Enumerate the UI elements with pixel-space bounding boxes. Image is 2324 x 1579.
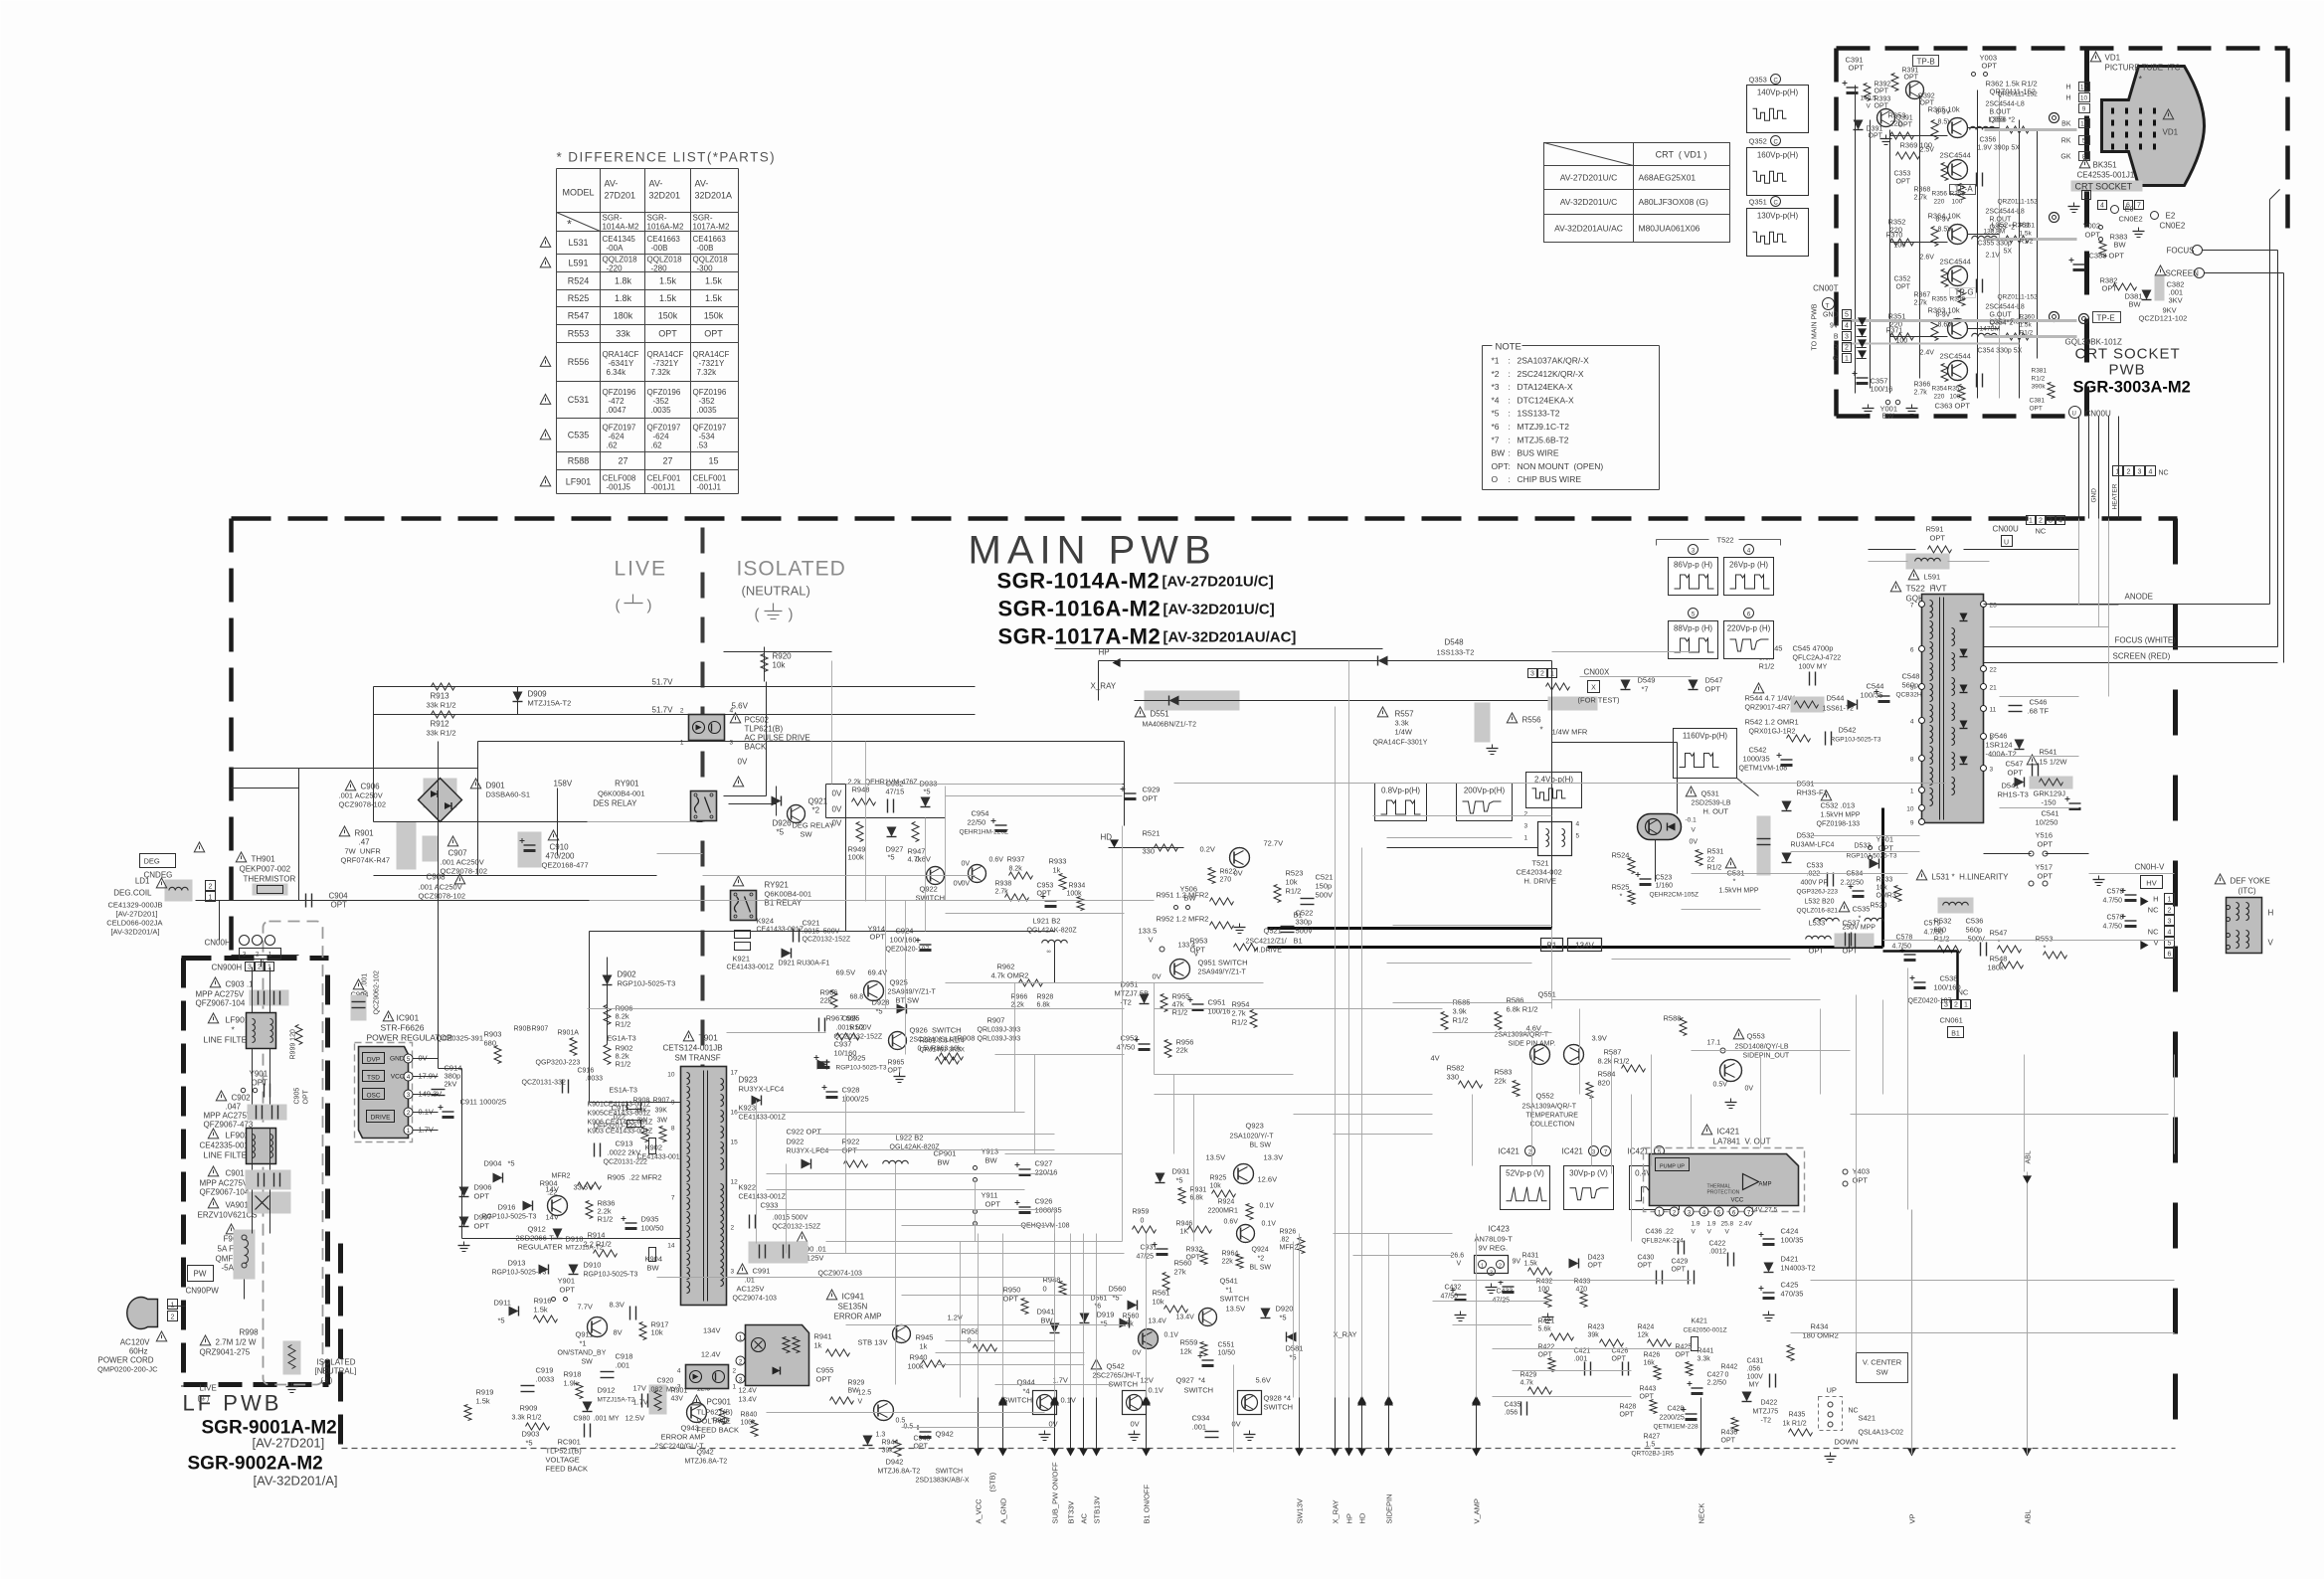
svg-text:16k: 16k [1644, 1360, 1656, 1367]
svg-text:R354: R354 [1932, 386, 1948, 393]
svg-text:CE41345: CE41345 [603, 235, 636, 244]
svg-text:2SC4544: 2SC4544 [1940, 352, 1971, 361]
svg-text:7.32k: 7.32k [651, 368, 672, 377]
svg-text:V: V [1707, 1229, 1712, 1236]
svg-text:R907: R907 [532, 1026, 549, 1033]
svg-text:K924: K924 [757, 917, 775, 926]
resistors R913 R912 / zener D909 [374, 686, 976, 688]
svg-text:THERMISTOR: THERMISTOR [244, 875, 296, 884]
svg-text:13.4V: 13.4V [1176, 1315, 1195, 1321]
svg-text:PC502: PC502 [745, 716, 770, 725]
svg-text:ANODE: ANODE [2125, 593, 2153, 602]
svg-text:RU3YX-LFC4: RU3YX-LFC4 [739, 1085, 785, 1094]
svg-text:CN0E2: CN0E2 [2119, 215, 2143, 224]
svg-text:R556: R556 [568, 357, 590, 367]
svg-text:OPT: OPT [560, 1286, 576, 1295]
optocoupler PC902 [689, 715, 725, 741]
svg-text:330: 330 [1143, 847, 1156, 856]
svg-text:*2: *2 [1258, 1256, 1265, 1263]
optocoupler PC901 [686, 1365, 729, 1389]
svg-text:(ITC): (ITC) [2238, 887, 2257, 896]
svg-text:0.2V: 0.2V [1200, 845, 1215, 854]
svg-text:158V: 158V [554, 780, 573, 789]
svg-text:.0035: .0035 [651, 406, 672, 415]
svg-text:5: 5 [2082, 138, 2086, 145]
IC941 error amplifier [826, 1290, 836, 1300]
svg-text:5.6k: 5.6k [1538, 1326, 1552, 1333]
svg-text:.022: .022 [612, 1113, 626, 1122]
svg-text:AV-: AV- [695, 179, 709, 189]
svg-text:(: ( [755, 607, 760, 623]
svg-text:-7321Y: -7321Y [653, 359, 679, 368]
svg-text:.001: .001 [616, 1361, 630, 1370]
svg-text:-624: -624 [609, 433, 626, 441]
svg-text:QRA14CF: QRA14CF [647, 350, 684, 359]
svg-text:*2: *2 [812, 806, 820, 815]
svg-text:IC901: IC901 [397, 1013, 420, 1023]
svg-text:TLP621(B): TLP621(B) [745, 725, 784, 734]
svg-text:*6: *6 [1492, 422, 1500, 432]
svg-text:1: 1 [1964, 1002, 1968, 1009]
svg-text:QCZ0131-332: QCZ0131-332 [522, 1080, 566, 1087]
svg-text:R428: R428 [1620, 1404, 1637, 1411]
svg-text:GND: GND [390, 1056, 405, 1063]
anode focus screen wires [1984, 604, 2270, 606]
svg-text:C427: C427 [1707, 1372, 1724, 1379]
svg-text:60Hz: 60Hz [129, 1347, 148, 1356]
svg-text:1SS133-T2: 1SS133-T2 [1437, 648, 1475, 657]
svg-text:OPT: OPT [842, 1146, 858, 1155]
svg-text:Q951 SWITCH: Q951 SWITCH [1198, 959, 1248, 967]
svg-text:1SR124: 1SR124 [1986, 741, 2013, 750]
svg-text:MTZJ15A-T2: MTZJ15A-T2 [598, 1397, 635, 1404]
svg-text:R1/2: R1/2 [1934, 935, 1950, 944]
svg-text:4.7/50: 4.7/50 [2103, 924, 2123, 931]
svg-text:1: 1 [733, 1384, 737, 1391]
svg-text:220: 220 [1934, 199, 1945, 206]
svg-text:-220: -220 [607, 264, 624, 273]
transformer T901 [683, 1031, 693, 1041]
svg-text:15: 15 [708, 456, 718, 466]
svg-text:RGP10J-5025-T3: RGP10J-5025-T3 [584, 1272, 638, 1279]
svg-text:SCREEN (RED): SCREEN (RED) [2113, 652, 2171, 661]
svg-text:QCZ9078-102: QCZ9078-102 [419, 892, 466, 901]
svg-text:1: 1 [2029, 518, 2033, 525]
svg-text:2: 2 [1954, 1002, 1958, 1009]
svg-text:-280: -280 [651, 264, 668, 273]
svg-text::: : [1509, 395, 1511, 405]
svg-text:CE42050-001Z: CE42050-001Z [1684, 1327, 1727, 1334]
svg-text:X_RAY: X_RAY [1091, 682, 1117, 691]
svg-text:L531: L531 [568, 238, 588, 248]
svg-text:0.5: 0.5 [904, 1424, 914, 1431]
svg-text:REGULATER: REGULATER [518, 1243, 564, 1252]
bottom signal arrows [978, 1398, 980, 1455]
svg-text:QSL4A13-C02: QSL4A13-C02 [1859, 1430, 1904, 1437]
svg-text:FEED BACK: FEED BACK [697, 1426, 740, 1435]
svg-text:RGP10J-5025-T3: RGP10J-5025-T3 [492, 1270, 547, 1277]
B1 switch Q951 [1115, 927, 1258, 1058]
svg-text:5: 5 [2168, 941, 2172, 948]
svg-text:4: 4 [2058, 518, 2062, 525]
svg-text:QCZ9078-102: QCZ9078-102 [339, 800, 387, 809]
svg-text:BW: BW [2129, 300, 2142, 309]
svg-text:C534: C534 [1847, 871, 1864, 878]
svg-text:C922 OPT: C922 OPT [787, 1128, 822, 1137]
svg-text:C551: C551 [1218, 1342, 1235, 1349]
svg-text:21: 21 [1990, 685, 1998, 692]
svg-text:R903: R903 [484, 1030, 502, 1039]
svg-text:1/4W MFR: 1/4W MFR [1552, 728, 1588, 737]
svg-text:8: 8 [671, 1126, 675, 1133]
svg-text:1: 1 [680, 740, 684, 747]
svg-text:Q351: Q351 [1749, 198, 1767, 207]
svg-text:Q6K00B4-001: Q6K00B4-001 [765, 890, 812, 899]
svg-text:0.1V: 0.1V [1061, 1396, 1076, 1405]
svg-text:RGP10J-5025-T3: RGP10J-5025-T3 [482, 1214, 537, 1221]
deg sense cluster R937 [960, 809, 1086, 911]
svg-text:2.7k: 2.7k [1232, 1009, 1246, 1018]
svg-text:43V: 43V [671, 1396, 684, 1403]
svg-text:27k: 27k [1123, 1321, 1135, 1328]
svg-text:1.5kVH MPP: 1.5kVH MPP [1719, 888, 1759, 895]
svg-text:-001J1: -001J1 [697, 483, 722, 492]
feedback resistors cluster [893, 1276, 1076, 1371]
svg-text:QFP320J-223: QFP320J-223 [594, 1124, 637, 1131]
svg-text:*5: *5 [498, 1316, 505, 1325]
svg-text:11: 11 [1990, 707, 1997, 714]
svg-text:H: H [2268, 909, 2274, 918]
svg-text:2.2/250: 2.2/250 [1841, 880, 1864, 887]
svg-text:47/50: 47/50 [1117, 1043, 1136, 1052]
resistor R998 [200, 1335, 210, 1345]
svg-text:14: 14 [667, 1243, 675, 1250]
svg-text:V: V [1149, 936, 1154, 945]
svg-text:1: 1 [1845, 356, 1849, 363]
svg-text:L531 * H.LINEARITY: L531 * H.LINEARITY [1932, 873, 2010, 882]
switch Q541 Q542 [1091, 1259, 1356, 1389]
svg-text:AV-27D201U/C: AV-27D201U/C [1560, 173, 1617, 183]
flyback transformer T522 [1890, 582, 1900, 592]
svg-text:R1/2: R1/2 [2020, 330, 2034, 337]
svg-text:CELF001: CELF001 [693, 474, 727, 483]
svg-text:2.2k QEHR1VM-476Z: 2.2k QEHR1VM-476Z [848, 780, 919, 787]
svg-text:C547: C547 [2006, 760, 2024, 769]
svg-text:-6341Y: -6341Y [609, 359, 634, 368]
svg-text:330p: 330p [1296, 918, 1313, 927]
svg-text:OPT: OPT [1809, 947, 1825, 956]
svg-text:3: 3 [2138, 469, 2142, 476]
svg-text:CN00U: CN00U [1993, 525, 2019, 534]
svg-text:SWITCH: SWITCH [936, 1469, 964, 1476]
svg-text:[AV-27D201]: [AV-27D201] [253, 1436, 325, 1451]
svg-text:4: 4 [2168, 930, 2172, 937]
svg-text:D909: D909 [528, 690, 548, 699]
svg-text:88Vp-p (H): 88Vp-p (H) [1674, 624, 1712, 633]
svg-text:CN90PW: CN90PW [186, 1287, 220, 1296]
svg-text:R909: R909 [520, 1404, 538, 1413]
svg-text:33k: 33k [616, 329, 630, 339]
svg-text:R945: R945 [916, 1333, 934, 1342]
svg-text:NC: NC [2148, 928, 2159, 937]
svg-text:560p: 560p [1966, 926, 1983, 935]
svg-text:AV-: AV- [649, 179, 663, 189]
svg-text:C578: C578 [2107, 915, 2124, 922]
svg-text:*: * [1998, 938, 2001, 947]
svg-text:1.5k: 1.5k [476, 1397, 490, 1406]
svg-text:V: V [1867, 103, 1872, 110]
relay RY921 B1 [733, 876, 743, 886]
svg-text:QFLC2AJ-4722: QFLC2AJ-4722 [1793, 655, 1842, 662]
svg-text:.0015 500V: .0015 500V [836, 1025, 872, 1032]
svg-text:IC421: IC421 [1499, 1147, 1520, 1156]
svg-text:R431: R431 [1522, 1253, 1539, 1260]
svg-text:2.7k: 2.7k [1914, 390, 1928, 397]
svg-text:D531: D531 [1797, 780, 1815, 789]
svg-text:MAIN PWB: MAIN PWB [969, 529, 1217, 573]
svg-text:QFZ0196: QFZ0196 [693, 388, 727, 397]
svg-text::: : [1509, 435, 1511, 444]
svg-text:OPT: OPT [1705, 685, 1721, 694]
svg-text:BL SW: BL SW [1250, 1265, 1272, 1272]
svg-text:): ) [647, 598, 652, 614]
svg-text:220Vp-p (H): 220Vp-p (H) [1727, 624, 1771, 633]
svg-text:QFZ0197: QFZ0197 [603, 424, 636, 433]
svg-text:SW: SW [582, 1359, 594, 1366]
svg-text:*: * [2044, 944, 2047, 953]
svg-text:SWITCH: SWITCH [916, 894, 946, 903]
svg-text:R940: R940 [910, 1353, 928, 1362]
svg-text:390k: 390k [2032, 384, 2047, 391]
svg-text:AMP: AMP [1759, 1182, 1772, 1188]
transistor Q921 deg relay sw [788, 805, 805, 823]
svg-text:7: 7 [671, 1195, 675, 1202]
LF PWB inner dashed [264, 922, 323, 1385]
svg-text:SGR-9002A-M2: SGR-9002A-M2 [188, 1454, 323, 1475]
svg-text:*5: *5 [924, 788, 931, 796]
svg-text:.056: .056 [1747, 1366, 1761, 1373]
svg-text:150k: 150k [658, 311, 678, 321]
svg-text:8-9V: 8-9V [1936, 217, 1951, 224]
svg-text:12k: 12k [1638, 1332, 1650, 1339]
svg-text:BW: BW [647, 1264, 660, 1273]
svg-text:R392: R392 [1875, 82, 1891, 88]
svg-text:V_AMP: V_AMP [1473, 1498, 1482, 1523]
svg-text:R421: R421 [1538, 1318, 1555, 1325]
svg-text:∞: ∞ [1047, 950, 1051, 956]
svg-text:LF PWB: LF PWB [183, 1391, 282, 1416]
svg-text:C536: C536 [1966, 917, 1984, 926]
svg-text:R918: R918 [564, 1370, 582, 1379]
svg-text:0: 0 [968, 1336, 972, 1345]
svg-text:1k: 1k [1053, 866, 1061, 875]
svg-text:R919: R919 [476, 1388, 494, 1397]
svg-text:OPT: OPT [474, 1222, 490, 1231]
svg-text:R525: R525 [568, 293, 590, 303]
svg-text:R588: R588 [568, 456, 590, 466]
svg-text:.056: .056 [1505, 1410, 1519, 1417]
svg-text:2SC4544: 2SC4544 [1940, 258, 1971, 266]
svg-text:[AV-27D201]: [AV-27D201] [116, 910, 158, 919]
svg-text:TLP621(B): TLP621(B) [697, 1408, 734, 1417]
picture tube VD1 [2102, 67, 2205, 186]
svg-text:2: 2 [171, 1315, 175, 1321]
svg-text:.0012: .0012 [1709, 1249, 1727, 1256]
note legend box [1483, 345, 1493, 347]
svg-text:.62: .62 [607, 441, 619, 450]
svg-text:QFZ9067-104: QFZ9067-104 [200, 1188, 250, 1197]
svg-text:5: 5 [1845, 312, 1849, 319]
svg-text:OPT: OPT [914, 1444, 929, 1451]
svg-text:OPT: OPT [2038, 872, 2054, 881]
svg-text:R583: R583 [1495, 1068, 1513, 1077]
svg-text:AV-32D201AU/AC: AV-32D201AU/AC [1554, 224, 1623, 234]
svg-text:R523: R523 [1286, 869, 1304, 878]
svg-text:D920: D920 [1276, 1305, 1294, 1314]
svg-text:133.5: 133.5 [1139, 927, 1158, 936]
svg-text:0V: 0V [738, 758, 748, 767]
svg-text:LF901: LF901 [566, 477, 592, 487]
svg-text:33k R1/2: 33k R1/2 [427, 729, 456, 738]
svg-text:STB 13V: STB 13V [858, 1338, 888, 1347]
svg-text:PICTURE TUBE ITC: PICTURE TUBE ITC [2105, 64, 2181, 73]
svg-text:27: 27 [662, 456, 672, 466]
svg-text:C429: C429 [1672, 1259, 1689, 1266]
svg-text:1: 1 [1524, 835, 1528, 842]
svg-text:PUMP UP: PUMP UP [1660, 1164, 1685, 1170]
svg-text:4: 4 [1910, 719, 1914, 726]
svg-text:R356: R356 [1932, 191, 1948, 198]
IC901 power regulator [383, 1011, 393, 1021]
svg-text:[AV-32D201/A]: [AV-32D201/A] [110, 928, 159, 937]
svg-text:R426: R426 [1644, 1352, 1661, 1359]
svg-text:8.6V: 8.6V [1938, 322, 1953, 329]
svg-text:VD1: VD1 [2163, 128, 2179, 137]
svg-text:R422: R422 [1538, 1344, 1555, 1351]
svg-text:QRA14CF: QRA14CF [603, 350, 639, 359]
svg-text:OPT: OPT [2102, 284, 2118, 293]
svg-text:D925: D925 [848, 1054, 866, 1063]
svg-text:R941: R941 [814, 1332, 832, 1341]
svg-text:1/4W: 1/4W [1395, 728, 1413, 737]
svg-text:-400A-T2: -400A-T2 [1986, 750, 2017, 759]
svg-text:C435: C435 [1505, 1402, 1521, 1409]
svg-text:CN00X: CN00X [1584, 668, 1610, 677]
svg-text:1.8k: 1.8k [615, 276, 632, 286]
svg-text::: : [1509, 474, 1511, 484]
svg-text:AC125V: AC125V [737, 1285, 765, 1294]
svg-text:10/250: 10/250 [2036, 818, 2058, 827]
svg-text:ABL: ABL [2024, 1509, 2033, 1523]
svg-text:-624: -624 [653, 433, 670, 441]
wire routing mid [946, 982, 1155, 984]
svg-text::: : [1509, 461, 1511, 471]
svg-text:15 1/2W: 15 1/2W [2040, 758, 2068, 767]
svg-text:OPT: OPT [1721, 1438, 1736, 1445]
svg-text:R432: R432 [1536, 1279, 1553, 1286]
svg-text:23: 23 [1990, 603, 1998, 610]
svg-text:8-9V: 8-9V [1936, 312, 1951, 319]
svg-text::: : [1509, 356, 1511, 366]
svg-text:R948: R948 [852, 786, 870, 794]
svg-text:QETM1VM-108: QETM1VM-108 [1739, 766, 1788, 773]
svg-text:R582: R582 [1447, 1064, 1465, 1073]
svg-text:Q542: Q542 [1107, 1362, 1125, 1371]
svg-text:RH3S-F1: RH3S-F1 [1797, 789, 1828, 797]
svg-text:R443: R443 [1640, 1386, 1657, 1393]
svg-text:QRF074K-R47: QRF074K-R47 [341, 856, 391, 865]
svg-text:SUB_PW ON/OFF: SUB_PW ON/OFF [1051, 1462, 1060, 1524]
svg-text:10: 10 [1906, 806, 1914, 813]
svg-text:QRL039J-393: QRL039J-393 [978, 1027, 1021, 1034]
svg-text:1.9V 390p 5X: 1.9V 390p 5X [1978, 145, 2021, 152]
svg-text:QRZ0111-152: QRZ0111-152 [1998, 91, 2039, 98]
svg-text:2: 2 [1524, 811, 1528, 818]
svg-text:32D201: 32D201 [649, 191, 681, 201]
svg-text:A_GND: A_GND [999, 1497, 1008, 1523]
svg-text:26Vp-p (H): 26Vp-p (H) [1729, 561, 1768, 570]
svg-text:9V: 9V [1830, 323, 1839, 330]
svg-text:SWITCH: SWITCH [1264, 1403, 1294, 1412]
svg-text:T521: T521 [1532, 859, 1549, 868]
svg-text:500V: 500V [1316, 891, 1334, 900]
svg-text:12V: 12V [1141, 1376, 1154, 1385]
beam limiter switches Q923 Q924 [1133, 1122, 1306, 1272]
svg-text:CE41329-000JB: CE41329-000JB [107, 901, 162, 910]
svg-text:7.32k: 7.32k [697, 368, 718, 377]
svg-text:QQLZ018: QQLZ018 [693, 256, 729, 264]
svg-text:1: 1 [1550, 671, 1554, 678]
svg-text:QFZ9067-104: QFZ9067-104 [196, 999, 246, 1008]
svg-text:B1: B1 [1951, 1031, 1960, 1038]
svg-text:R393: R393 [1875, 96, 1891, 103]
svg-text:R926: R926 [1280, 1229, 1297, 1236]
svg-text:R531: R531 [1707, 849, 1724, 856]
svg-text:UP: UP [1827, 1386, 1837, 1395]
svg-text:OPT: OPT [658, 329, 677, 339]
svg-text:C538: C538 [1940, 974, 1958, 983]
svg-text:B1 RELAY: B1 RELAY [765, 899, 803, 908]
svg-text:1.5k: 1.5k [659, 276, 677, 286]
svg-text:17V: 17V [633, 1384, 646, 1393]
svg-text:TLP521(B): TLP521(B) [546, 1447, 583, 1456]
svg-text:4V: 4V [1431, 1054, 1440, 1063]
svg-text:C910: C910 [550, 843, 570, 852]
svg-text:4.7/50: 4.7/50 [1892, 944, 1912, 951]
svg-text:0V: 0V [832, 805, 842, 814]
svg-text:51.7V: 51.7V [652, 678, 674, 687]
svg-text:D423: D423 [1588, 1255, 1605, 1262]
svg-text:D926: D926 [773, 819, 793, 828]
svg-text:CN0E2: CN0E2 [2160, 222, 2186, 231]
svg-text:R948: R948 [1043, 1276, 1061, 1285]
svg-text:BW: BW [1492, 448, 1506, 458]
svg-text:C424: C424 [1781, 1227, 1799, 1236]
svg-text:D903: D903 [522, 1430, 540, 1439]
svg-text:22k: 22k [1176, 1046, 1188, 1055]
svg-text:R424: R424 [1638, 1324, 1655, 1331]
svg-text:DVP: DVP [367, 1057, 380, 1064]
svg-text:OSC: OSC [366, 1093, 380, 1100]
svg-text:HP: HP [1345, 1513, 1354, 1523]
svg-text:0: 0 [1725, 1372, 1729, 1379]
svg-text:K922: K922 [739, 1183, 757, 1192]
varistor VA901 [208, 1166, 218, 1176]
svg-text:CE42034-002: CE42034-002 [1517, 868, 1562, 877]
svg-text:6.8k: 6.8k [1190, 1195, 1204, 1202]
svg-text:LA7841 V. OUT: LA7841 V. OUT [1713, 1138, 1771, 1146]
svg-text::: : [1509, 369, 1511, 379]
